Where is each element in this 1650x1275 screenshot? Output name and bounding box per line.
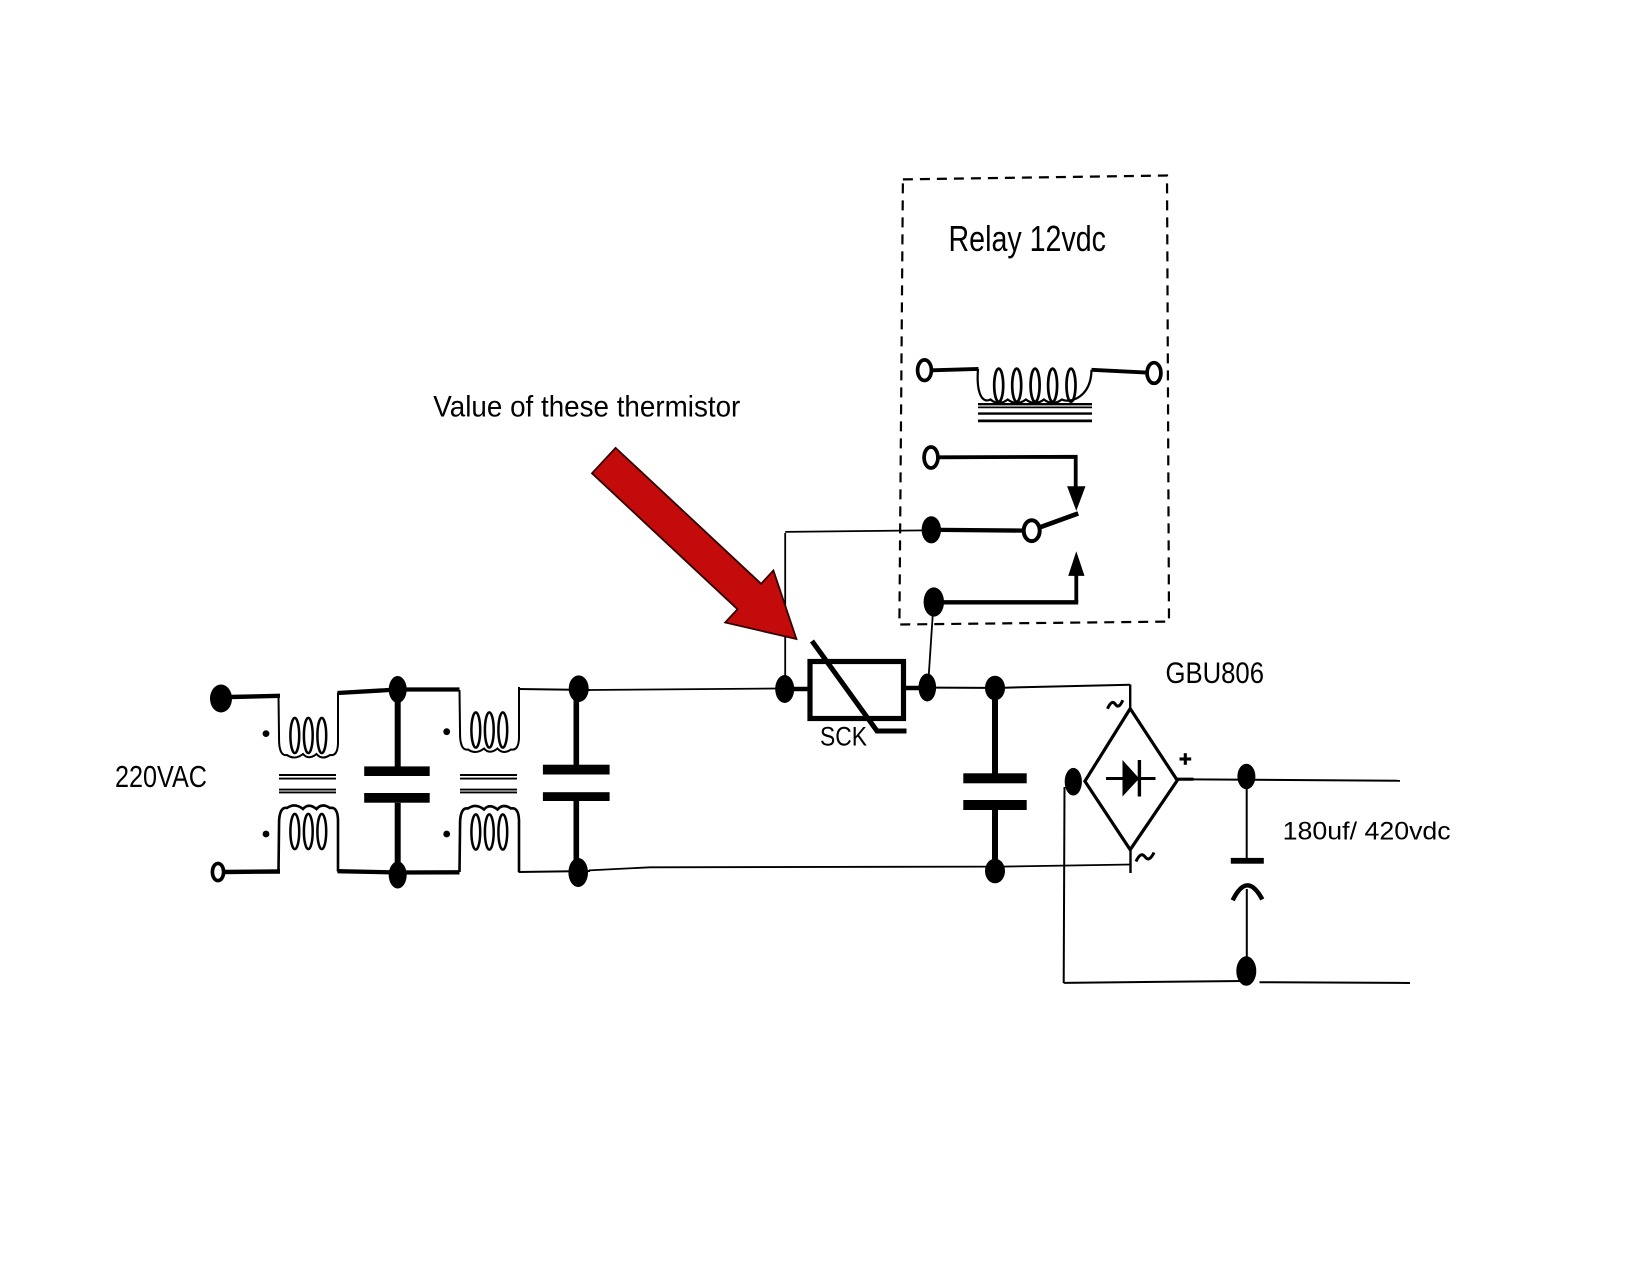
wire input bottom stub [223, 869, 280, 874]
wire C3 to bridge top [1004, 685, 1130, 688]
wire input top stub [230, 696, 280, 697]
wire C2 to thermistor [589, 689, 777, 691]
bridge rectifier GBU806 [1085, 709, 1177, 850]
svg-text:220VAC: 220VAC [115, 759, 207, 794]
relay coil right lead [1092, 370, 1148, 373]
capacitor C4 electrolytic [1231, 788, 1264, 958]
wire L1 to C1 to L2 bottom [338, 871, 460, 872]
capacitor C1 [364, 676, 430, 889]
svg-text:Value of these thermistor: Value of these thermistor [433, 391, 740, 424]
relay pivot [1024, 520, 1040, 541]
node J2 input neutral terminal [212, 863, 223, 880]
relay NC terminal [924, 447, 938, 468]
wire thermistor left lead [793, 687, 810, 692]
wire dc plus stub [1177, 778, 1194, 781]
relay NC lead [938, 457, 1076, 489]
relay core lines [978, 404, 1092, 421]
relay coil left lead [932, 369, 979, 370]
inductor L2 phase dot top [443, 728, 450, 735]
capacitor C3 [963, 676, 1026, 884]
node bridge minus [1065, 768, 1082, 796]
relay coil K1 right terminal [1147, 363, 1161, 384]
node B thermistor right [919, 674, 937, 702]
inductor L1 bottom winding [279, 805, 339, 871]
wire dc minus rail right [1260, 981, 1411, 984]
inductor L2 phase dot bottom [443, 831, 450, 838]
wire L2 to C2 top [519, 689, 591, 690]
thermistor SCK body [810, 662, 904, 719]
bridge ac tilde bottom [1136, 853, 1154, 862]
bridge ac tilde top [1108, 700, 1123, 709]
bridge bottom tick [1129, 850, 1131, 874]
inductor L1 core lines [279, 775, 336, 792]
wire thermistor right lead [904, 686, 921, 691]
wire node B to C3 [936, 687, 986, 689]
capacitor C2 [543, 675, 610, 887]
relay blade [1040, 513, 1079, 527]
wire L2 to C2 bottom [519, 871, 591, 872]
wire bottom rail C2 to C3 [589, 867, 995, 871]
relay NC arrow [1067, 486, 1085, 511]
node J1 input line terminal [210, 685, 232, 713]
bridge top tick [1129, 685, 1131, 710]
wire bridge minus down [1063, 787, 1066, 983]
inductor L2 core lines [460, 775, 517, 792]
relay NO arrow [1068, 551, 1084, 576]
svg-text:Relay 12vdc: Relay 12vdc [949, 218, 1107, 259]
wire bottom rail C3 to bridge [995, 865, 1131, 867]
relay common terminal [922, 516, 941, 543]
wire node A to relay common [785, 530, 925, 532]
relay coil K1 [978, 369, 1092, 403]
bridge plus sign [1180, 753, 1192, 765]
inductor L2 bottom winding [460, 806, 520, 872]
svg-text:SCK: SCK [820, 722, 867, 752]
wire node A up [784, 533, 786, 680]
relay common lead [940, 528, 1024, 533]
svg-text:180uf/ 420vdc: 180uf/ 420vdc [1283, 818, 1451, 846]
inductor L1 phase dot top [263, 730, 270, 737]
wire dc plus rail [1193, 779, 1400, 780]
node dc minus [1236, 956, 1256, 985]
thermistor SCK diagonal [812, 641, 907, 731]
inductor L2 top winding [460, 687, 520, 752]
node A thermistor left [775, 675, 794, 703]
relay NO stem [1074, 575, 1078, 603]
wire node B to relay lower contact [929, 614, 933, 676]
svg-text:GBU806: GBU806 [1166, 657, 1265, 690]
inductor L1 top winding [279, 693, 339, 758]
wire dc minus rail left [1064, 981, 1243, 983]
relay coil K1 left terminal [918, 360, 932, 381]
node dc plus [1237, 764, 1255, 789]
inductor L1 phase dot bottom [263, 831, 270, 838]
relay box dashed [899, 176, 1169, 625]
relay NO terminal [924, 587, 944, 616]
wire L1 to C1 to L2 top [338, 690, 460, 694]
relay NO lead [942, 600, 1078, 604]
arrow callout red [592, 448, 796, 639]
